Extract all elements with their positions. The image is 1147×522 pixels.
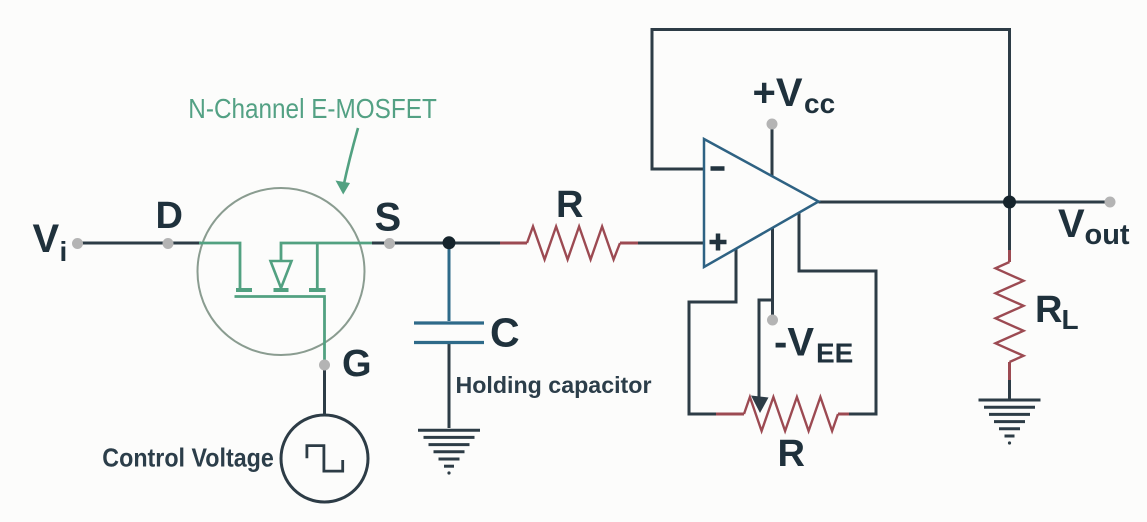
svg-text:L: L [1062,304,1079,335]
svg-text:V: V [1058,202,1085,246]
svg-text:N-Channel E-MOSFET: N-Channel E-MOSFET [188,93,437,124]
svg-text:Control Voltage: Control Voltage [102,443,273,473]
svg-text:V: V [33,217,60,261]
svg-text:EE: EE [816,338,853,369]
svg-text:-V: -V [774,321,814,365]
svg-text:+V: +V [753,71,803,115]
svg-text:C: C [490,310,520,356]
svg-text:R: R [556,184,583,226]
svg-text:G: G [342,343,372,385]
svg-text:D: D [156,195,183,237]
svg-text:Holding capacitor: Holding capacitor [456,372,652,398]
svg-text:S: S [375,196,402,240]
svg-text:i: i [60,236,68,267]
svg-text:cc: cc [804,88,835,119]
svg-text:R: R [1035,289,1062,331]
svg-text:out: out [1085,219,1130,251]
svg-text:R: R [778,433,805,475]
